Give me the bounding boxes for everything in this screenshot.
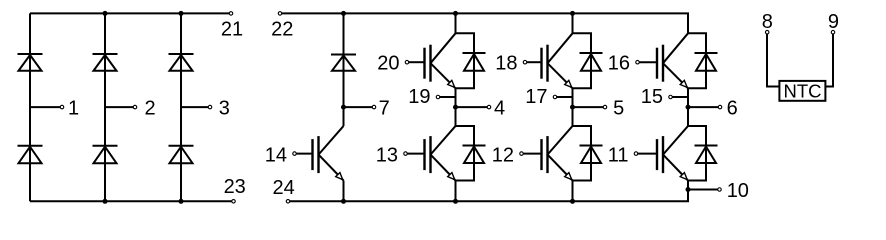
pin 7 terminal circle	[372, 105, 376, 109]
wire leg 6 top diode branch	[688, 32, 707, 34]
svg-text:20: 20	[377, 52, 399, 74]
svg-text:10: 10	[727, 180, 749, 202]
svg-text:NTC: NTC	[783, 81, 821, 102]
svg-text:19: 19	[408, 86, 430, 108]
svg-text:9: 9	[828, 11, 839, 33]
svg-text:8: 8	[762, 11, 773, 33]
svg-text:13: 13	[376, 144, 398, 166]
junction top rail / leg 2	[103, 11, 108, 16]
wire rectifier leg 1	[29, 13, 31, 201]
IGBT T18 (upper)	[523, 33, 572, 88]
wire node 6 stub	[688, 106, 718, 108]
wire rectifier leg 2	[104, 13, 106, 201]
svg-text:18: 18	[495, 52, 517, 74]
wire node 10 stub	[688, 189, 718, 191]
wire leg 4 collector drop	[455, 13, 457, 33]
wire node 7 stub	[344, 106, 373, 108]
junction bottom rail / leg 3	[179, 199, 184, 204]
junction node 4	[453, 105, 458, 110]
junction top rail / leg 5	[570, 11, 575, 16]
junction node 5	[570, 105, 575, 110]
pin 23 terminal circle	[232, 200, 236, 204]
wire leg 5 emitter to rail	[572, 181, 574, 202]
pin 4 terminal circle	[487, 105, 491, 109]
svg-text:14: 14	[265, 144, 287, 166]
wire bottom rail DC- (left bridge)	[30, 200, 232, 202]
wire pin 15 aux emitter stub	[672, 96, 688, 98]
pin 22 terminal circle	[278, 12, 282, 16]
diode D3 (upper, phase 2)	[93, 54, 118, 71]
junction node 7	[341, 105, 346, 110]
diode D13 (freewheel lower)	[463, 146, 486, 164]
svg-text:24: 24	[272, 177, 294, 199]
IGBT T11 (lower)	[634, 126, 688, 181]
svg-text:4: 4	[494, 98, 505, 120]
wire leg 6 collector drop	[687, 13, 689, 33]
svg-text:5: 5	[613, 98, 624, 120]
svg-text:23: 23	[224, 176, 246, 198]
wire leg 6 bottom diode branch	[688, 125, 707, 127]
IGBT T20 (upper)	[405, 33, 455, 88]
pin 19 terminal circle	[436, 95, 440, 99]
wire leg 6 emitter to rail	[687, 181, 689, 202]
diode D1 (upper, phase 1)	[18, 54, 43, 71]
wire leg 5 bottom diode branch	[573, 125, 593, 127]
pin 5 terminal circle	[603, 105, 607, 109]
junction top rail / brake leg	[341, 11, 346, 16]
wire bottom rail DC- (inverter)	[290, 200, 689, 202]
wire leg 4 bottom diode branch	[456, 125, 476, 127]
junction top rail / leg 4	[453, 11, 458, 16]
diode D12 (freewheel lower)	[580, 146, 603, 164]
diode D7 (brake)	[331, 55, 356, 71]
svg-text:3: 3	[219, 98, 230, 120]
IGBT T14 (brake chopper)	[293, 126, 344, 181]
wire node 4 stub	[456, 106, 488, 108]
junction node 10	[686, 187, 691, 192]
diode D5 (upper, phase 3)	[169, 54, 194, 71]
pin 24 terminal circle	[286, 200, 290, 204]
pin 17 terminal circle	[553, 95, 557, 99]
pin 2 terminal circle	[133, 105, 137, 109]
IGBT T16 (upper)	[636, 33, 688, 88]
pin 21 terminal circle	[229, 12, 233, 16]
wire pin 9 to NTC	[832, 34, 834, 87]
wire top rail DC+ (left bridge)	[30, 12, 229, 14]
IGBT T12 (lower)	[520, 126, 573, 181]
svg-text:16: 16	[608, 52, 630, 74]
svg-text:17: 17	[525, 86, 547, 108]
svg-text:15: 15	[641, 86, 663, 108]
diode D11 (freewheel lower)	[695, 146, 718, 164]
wire brake leg upper	[343, 13, 345, 126]
svg-text:2: 2	[145, 98, 156, 120]
wire top rail DC+ (inverter)	[282, 12, 689, 14]
pin 9 terminal circle	[831, 30, 835, 34]
svg-text:21: 21	[221, 18, 243, 40]
svg-text:1: 1	[68, 98, 79, 120]
diode D4 (lower, phase 2)	[93, 146, 118, 164]
wire node 3 stub	[181, 106, 208, 108]
junction bottom rail / leg 2	[103, 199, 108, 204]
pin 8 terminal circle	[765, 30, 769, 34]
diode D18 (freewheel upper)	[580, 53, 603, 71]
wire brake emitter to rail	[343, 181, 345, 202]
wire leg 5 top diode branch	[573, 32, 593, 34]
wire leg 5 midsection	[572, 88, 574, 126]
junction node 6	[686, 105, 691, 110]
pin 1 terminal circle	[60, 105, 64, 109]
wire pin 19 aux emitter stub	[440, 96, 456, 98]
wire rectifier leg 3	[180, 13, 182, 201]
junction bottom rail / brake leg	[341, 199, 346, 204]
svg-text:22: 22	[271, 18, 293, 40]
wire leg 4 top diode branch	[456, 32, 476, 34]
diode D20 (freewheel upper)	[463, 53, 486, 71]
wire pin 17 aux emitter stub	[557, 96, 573, 98]
wire node 1 stub	[30, 106, 60, 108]
pin 10 terminal circle	[718, 188, 722, 192]
svg-text:12: 12	[492, 144, 514, 166]
thermistor NTC body	[779, 81, 825, 101]
IGBT T13 (lower)	[404, 126, 456, 181]
wire pin 8 to NTC	[766, 34, 768, 87]
diode D16 (freewheel upper)	[695, 53, 718, 71]
svg-text:6: 6	[727, 98, 738, 120]
pin 15 terminal circle	[669, 95, 673, 99]
wire leg 5 collector drop	[572, 13, 574, 33]
pin 3 terminal circle	[208, 105, 212, 109]
wire leg 4 emitter to rail	[455, 181, 457, 202]
junction bottom rail / leg 5	[570, 199, 575, 204]
pin 6 terminal circle	[718, 105, 722, 109]
junction bottom rail / leg 4	[453, 199, 458, 204]
svg-text:7: 7	[379, 98, 390, 120]
svg-text:11: 11	[608, 144, 629, 166]
wire node 2 stub	[105, 106, 133, 108]
wire leg 6 midsection	[687, 88, 689, 126]
diode D6 (lower, phase 3)	[169, 146, 194, 164]
wire node 5 stub	[573, 106, 604, 108]
diode D2 (lower, phase 1)	[18, 146, 43, 164]
wire leg 4 midsection	[455, 88, 457, 126]
junction top rail / leg 3	[179, 11, 184, 16]
